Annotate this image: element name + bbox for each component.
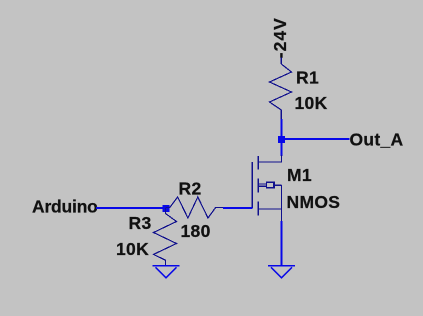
resistor R1 [270, 64, 292, 120]
svg-text:Arduino: Arduino [32, 197, 98, 217]
svg-text:-24V: -24V [270, 17, 290, 58]
body to source [281, 185, 283, 209]
channel segment top [257, 156, 259, 170]
svg-text:R3: R3 [129, 213, 152, 233]
wire source to ground [281, 221, 283, 266]
wire output node to Out_A label [282, 138, 350, 140]
wire R1 bottom to output node [281, 119, 283, 136]
gate bar [251, 162, 253, 208]
wire 24V rail stub [280, 58, 282, 65]
node junction gate/R3 [163, 205, 170, 212]
transistor M1 (NMOS) [252, 155, 281, 222]
channel segment middle [257, 179, 259, 193]
wire drain [281, 140, 283, 156]
wire R2 to gate [223, 207, 252, 209]
svg-text:Out_A: Out_A [350, 129, 404, 149]
source lead [258, 209, 281, 222]
node junction Out_A [278, 136, 285, 143]
channel segment bottom [257, 202, 259, 216]
resistor R2 [166, 197, 224, 218]
body arrow [259, 183, 266, 185]
svg-text:10K: 10K [295, 93, 328, 113]
svg-text:R2: R2 [179, 179, 202, 199]
ground (left, under R3) [153, 266, 180, 278]
wire Arduino to gate node [96, 207, 166, 209]
svg-text:10K: 10K [116, 239, 149, 259]
svg-text:180: 180 [181, 221, 211, 241]
drain lead [258, 155, 281, 162]
resistor R3 [154, 208, 177, 266]
ground (right, under M1 source) [268, 266, 295, 278]
svg-text:NMOS: NMOS [287, 192, 341, 212]
svg-text:M1: M1 [287, 165, 312, 185]
svg-text:R1: R1 [296, 68, 319, 88]
